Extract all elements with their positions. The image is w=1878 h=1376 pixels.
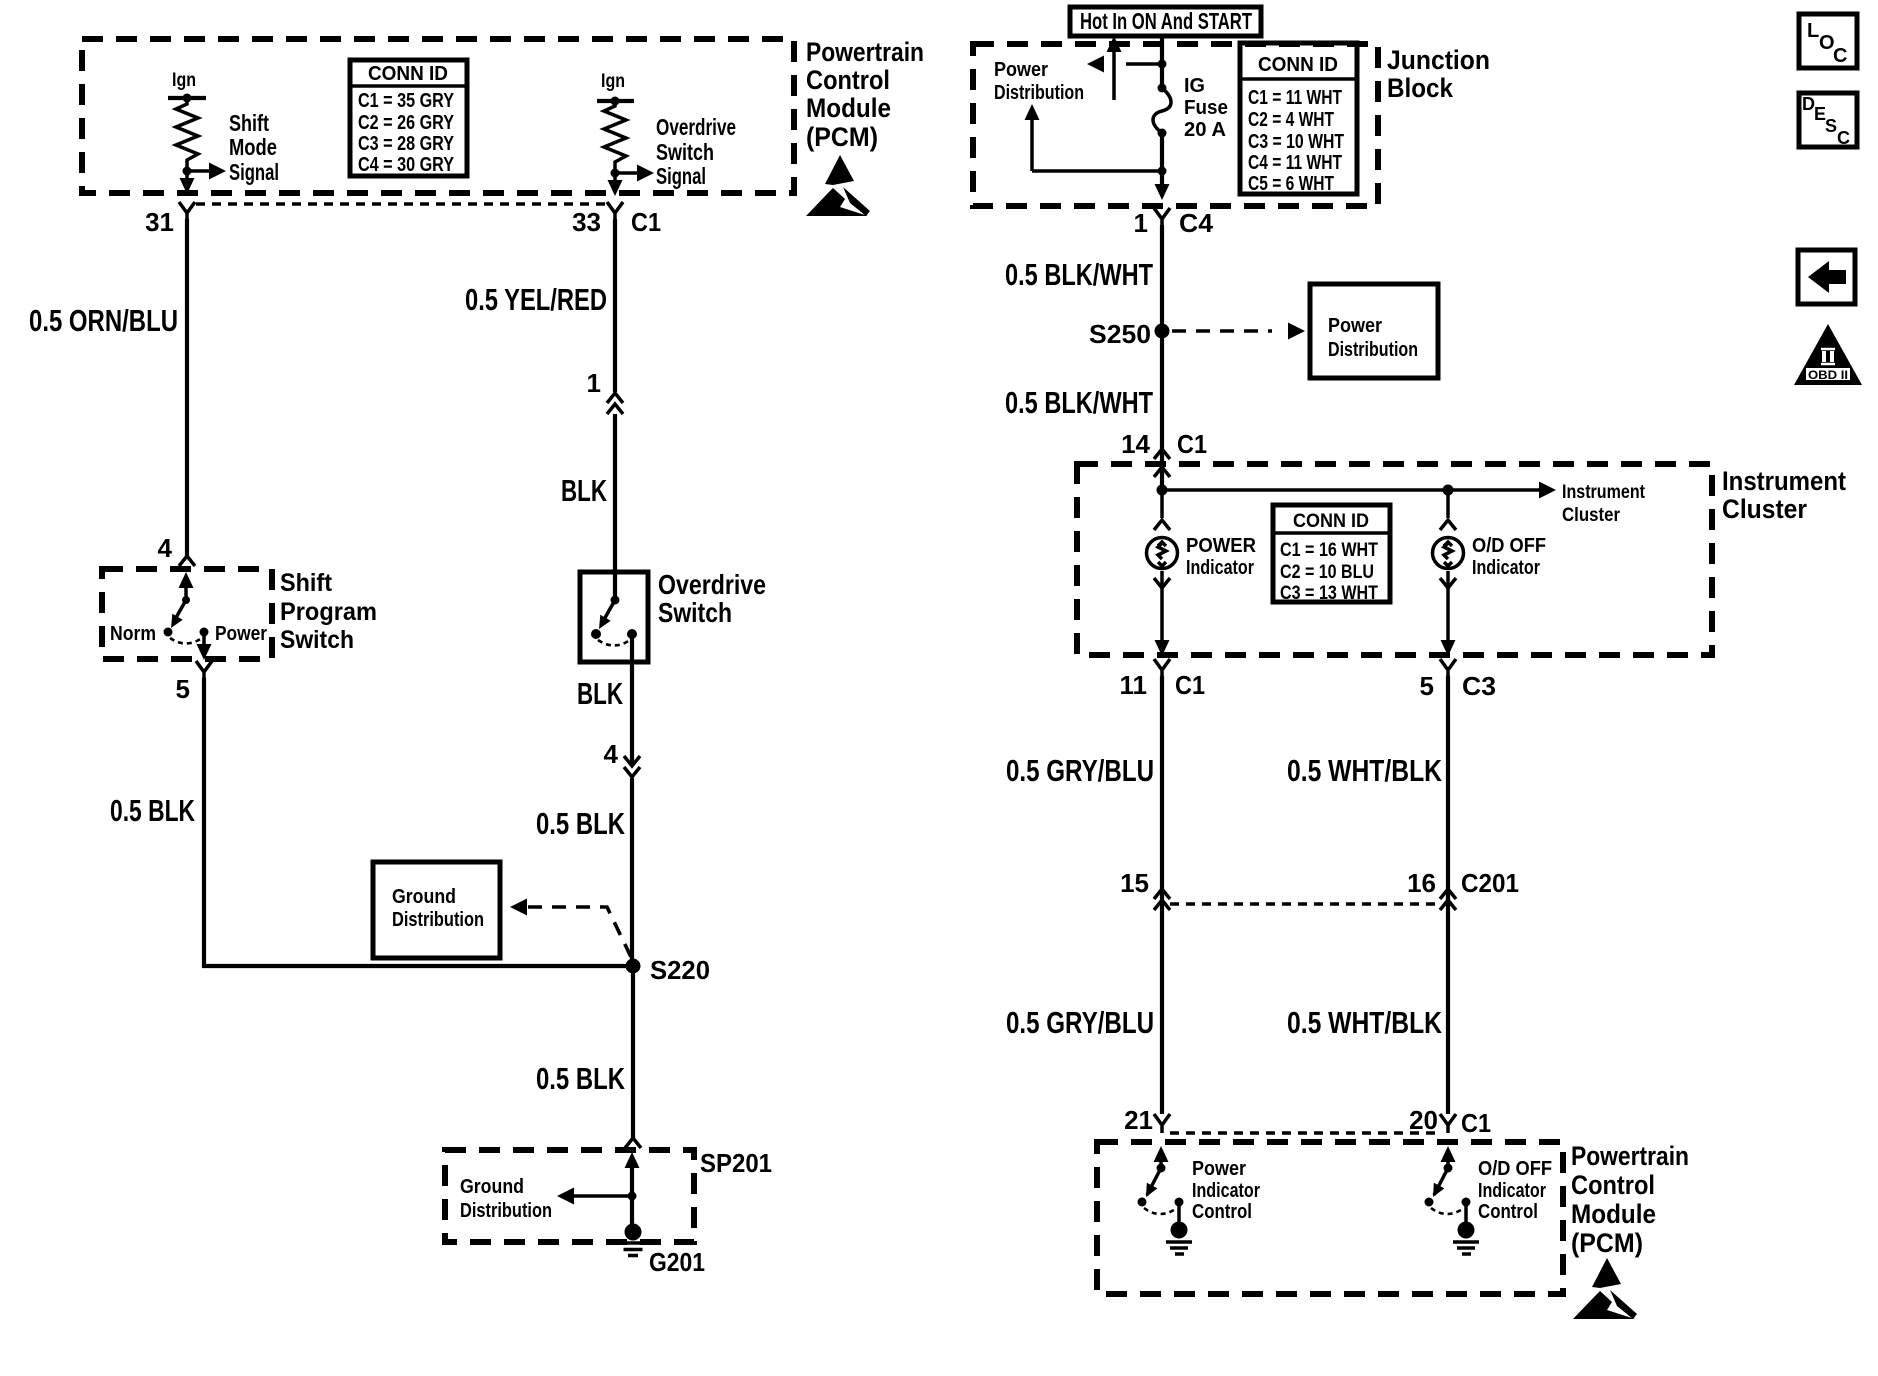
- svg-text:Distribution: Distribution: [392, 909, 484, 931]
- svg-text:C3 = 10 WHT: C3 = 10 WHT: [1248, 131, 1344, 153]
- wire 5 -> 20: [1446, 676, 1450, 1114]
- svg-text:C1: C1: [1177, 429, 1207, 459]
- wire S220 -> SP201: [631, 966, 635, 1138]
- svg-text:Overdrive: Overdrive: [658, 569, 766, 600]
- svg-text:IG: IG: [1184, 75, 1205, 97]
- svg-text:CONN ID: CONN ID: [1258, 54, 1338, 76]
- svg-text:C3 = 13 WHT: C3 = 13 WHT: [1280, 583, 1378, 604]
- svg-text:Indicator: Indicator: [1192, 1180, 1260, 1202]
- svg-text:(PCM): (PCM): [1571, 1228, 1643, 1258]
- pin 16 C201: [1407, 868, 1519, 910]
- svg-text:0.5 BLK/WHT: 0.5 BLK/WHT: [1005, 257, 1153, 292]
- pin 15: [1120, 868, 1170, 910]
- PCM module box (top left, dashed): [82, 39, 794, 193]
- svg-text:C4: C4: [1179, 208, 1214, 238]
- svg-text:SP201: SP201: [700, 1148, 772, 1178]
- pin 5 C3: [1420, 659, 1496, 701]
- svg-text:S: S: [1825, 116, 1837, 136]
- back arrow icon: [1798, 250, 1855, 304]
- svg-text:Power: Power: [215, 623, 267, 645]
- svg-text:31: 31: [145, 207, 174, 237]
- svg-text:Mode: Mode: [229, 134, 277, 160]
- svg-text:20 A: 20 A: [1184, 119, 1226, 141]
- svg-text:Control: Control: [1571, 1170, 1655, 1200]
- svg-text:0.5 BLK/WHT: 0.5 BLK/WHT: [1005, 385, 1153, 420]
- svg-text:Indicator: Indicator: [1478, 1180, 1546, 1202]
- wire out of overdrive switch: [630, 638, 634, 763]
- svg-text:Module: Module: [806, 93, 891, 123]
- svg-text:C1: C1: [1461, 1108, 1491, 1138]
- PCM connector boundary line: [1170, 1131, 1442, 1134]
- pin 5: [196, 661, 212, 680]
- svg-text:Shift: Shift: [229, 110, 269, 136]
- svg-text:Hot In ON And START: Hot In ON And START: [1080, 8, 1252, 34]
- svg-text:C2 = 4 WHT: C2 = 4 WHT: [1248, 109, 1334, 131]
- svg-text:CONN ID: CONN ID: [1293, 511, 1369, 532]
- Hot In ON And START box: [1070, 7, 1261, 36]
- wire exits junction block: [1155, 184, 1170, 200]
- CONN ID table (instrument cluster): [1273, 505, 1390, 604]
- svg-text:Power: Power: [994, 59, 1048, 81]
- svg-text:0.5 BLK: 0.5 BLK: [536, 1061, 625, 1096]
- branch left arrow: [1158, 60, 1167, 69]
- svg-text:C4 = 30 GRY: C4 = 30 GRY: [358, 154, 455, 176]
- svg-text:C1: C1: [1175, 670, 1205, 700]
- shift program switch symbol: [179, 572, 194, 588]
- pin 20 C1: [1409, 1105, 1491, 1138]
- O/D OFF indicator lamp: [1446, 490, 1450, 518]
- svg-text:BLK: BLK: [577, 676, 623, 711]
- svg-text:OBD II: OBD II: [1808, 368, 1848, 382]
- connector C201 boundary line: [1170, 902, 1440, 905]
- POWER indicator lamp: [1160, 490, 1164, 518]
- svg-text:Shift: Shift: [280, 569, 333, 597]
- svg-text:C2 = 26 GRY: C2 = 26 GRY: [358, 112, 455, 134]
- arrow to Hot In box: [1112, 48, 1116, 100]
- overdrive switch symbol: [611, 596, 620, 605]
- svg-text:Instrument: Instrument: [1562, 482, 1646, 503]
- Shift Mode Signal arrow: [187, 169, 212, 173]
- svg-text:C1 = 11 WHT: C1 = 11 WHT: [1248, 87, 1342, 109]
- svg-text:G201: G201: [649, 1247, 705, 1277]
- pin 11 C1: [1120, 659, 1206, 700]
- svg-text:Instrument: Instrument: [1722, 466, 1846, 496]
- svg-text:0.5 BLK: 0.5 BLK: [110, 793, 195, 828]
- svg-text:C: C: [1837, 128, 1850, 148]
- svg-text:C201: C201: [1461, 868, 1519, 898]
- svg-text:C1 = 16 WHT: C1 = 16 WHT: [1280, 540, 1378, 561]
- svg-text:Overdrive: Overdrive: [656, 114, 736, 140]
- ESD symbol (top PCM): [806, 155, 870, 216]
- svg-text:Ground: Ground: [460, 1176, 524, 1198]
- svg-text:Program: Program: [280, 598, 377, 626]
- DESC icon: [1799, 93, 1857, 148]
- Power Distribution box: [1310, 284, 1438, 378]
- connector boundary line (C1): [196, 202, 607, 205]
- svg-text:S250: S250: [1089, 319, 1151, 349]
- svg-text:21: 21: [1124, 1105, 1153, 1135]
- svg-text:Ign: Ign: [172, 70, 196, 91]
- svg-text:5: 5: [1420, 671, 1434, 701]
- svg-text:0.5 WHT/BLK: 0.5 WHT/BLK: [1287, 1005, 1442, 1040]
- svg-text:C5 = 6 WHT: C5 = 6 WHT: [1248, 173, 1334, 195]
- svg-text:Switch: Switch: [656, 139, 714, 165]
- svg-text:Indicator: Indicator: [1186, 557, 1254, 579]
- Junction Block box (dashed): [973, 44, 1378, 206]
- svg-text:Control: Control: [806, 65, 890, 95]
- svg-text:1: 1: [1134, 208, 1148, 238]
- svg-text:C1 = 35 GRY: C1 = 35 GRY: [358, 90, 455, 112]
- PCM module label: [806, 37, 924, 152]
- svg-text:Powertrain: Powertrain: [1571, 1141, 1689, 1171]
- svg-text:33: 33: [572, 207, 601, 237]
- svg-text:4: 4: [158, 533, 173, 563]
- OBD II icon: [1794, 324, 1862, 385]
- svg-text:0.5 GRY/BLU: 0.5 GRY/BLU: [1006, 753, 1154, 788]
- svg-text:Ground: Ground: [392, 886, 456, 908]
- svg-text:Norm: Norm: [110, 623, 156, 645]
- svg-text:(PCM): (PCM): [806, 122, 878, 152]
- Shift Program Switch box (dashed): [102, 569, 272, 659]
- svg-text:Power: Power: [1192, 1158, 1246, 1180]
- splice S250: [1155, 324, 1170, 339]
- svg-text:14: 14: [1121, 429, 1150, 459]
- svg-text:C3 = 28 GRY: C3 = 28 GRY: [358, 133, 455, 155]
- svg-text:C: C: [1833, 45, 1847, 67]
- svg-text:Block: Block: [1387, 73, 1454, 103]
- pin 31: [179, 202, 195, 221]
- node S220: [626, 959, 641, 974]
- svg-text:0.5 YEL/RED: 0.5 YEL/RED: [465, 282, 607, 317]
- svg-text:POWER: POWER: [1186, 535, 1257, 557]
- svg-text:0.5 ORN/BLU: 0.5 ORN/BLU: [29, 303, 178, 338]
- svg-text:L: L: [1807, 20, 1819, 42]
- svg-text:C1: C1: [631, 207, 661, 237]
- svg-text:BLK: BLK: [561, 473, 607, 508]
- IG fuse 20 A: [1158, 84, 1167, 93]
- svg-text:O/D OFF: O/D OFF: [1478, 1158, 1552, 1180]
- O/D OFF indicator control driver: [1441, 1146, 1456, 1162]
- svg-text:Fuse: Fuse: [1184, 97, 1228, 119]
- svg-text:C3: C3: [1462, 671, 1496, 701]
- pin 21: [1124, 1105, 1170, 1135]
- svg-text:Distribution: Distribution: [460, 1200, 552, 1222]
- svg-text:Powertrain: Powertrain: [806, 37, 924, 67]
- svg-text:0.5 BLK: 0.5 BLK: [536, 806, 625, 841]
- pin 1 / C4: [1154, 208, 1170, 227]
- svg-text:Control: Control: [1192, 1201, 1252, 1223]
- svg-text:Cluster: Cluster: [1722, 494, 1807, 524]
- svg-text:4: 4: [604, 739, 619, 769]
- svg-text:Cluster: Cluster: [1562, 505, 1621, 526]
- svg-text:C2 = 10 BLU: C2 = 10 BLU: [1280, 562, 1374, 583]
- LOC icon: [1799, 14, 1857, 68]
- CONN ID table (PCM): [350, 60, 467, 176]
- svg-text:Distribution: Distribution: [994, 82, 1084, 104]
- Overdrive Switch box: [580, 572, 648, 662]
- svg-text:20: 20: [1409, 1105, 1438, 1135]
- junction node (feed tap, right): [1443, 485, 1454, 496]
- junction node (feed tap, left): [1157, 485, 1168, 496]
- wire into cluster: [1160, 448, 1164, 490]
- wire 5 -> S220: [204, 678, 633, 966]
- svg-text:Signal: Signal: [656, 163, 706, 189]
- svg-text:Switch: Switch: [280, 626, 354, 654]
- branch power distribution arrow (up): [1160, 133, 1164, 186]
- dashed reference arrow to S220: [510, 899, 527, 916]
- svg-text:S220: S220: [650, 955, 710, 985]
- CONN ID table (junction block): [1240, 43, 1357, 195]
- Overdrive Switch Signal arrow: [615, 171, 640, 175]
- svg-text:O/D OFF: O/D OFF: [1472, 535, 1546, 557]
- splice SP201 box (dashed): [625, 1138, 641, 1148]
- svg-text:0.5 WHT/BLK: 0.5 WHT/BLK: [1287, 753, 1442, 788]
- resistor (overdrive pull-up): [604, 101, 626, 174]
- svg-text:Ign: Ign: [601, 71, 625, 92]
- dashed ref arrow to Power Distribution: [1172, 329, 1272, 333]
- wire 33 -> overdrive switch: [613, 219, 617, 392]
- svg-text:Signal: Signal: [229, 159, 279, 185]
- svg-text:Power: Power: [1328, 315, 1382, 337]
- svg-text:11: 11: [1120, 670, 1148, 700]
- power indicator control driver: [1154, 1146, 1169, 1162]
- svg-text:Control: Control: [1478, 1201, 1538, 1223]
- internal feed wire to instrument cluster ref: [1162, 482, 1646, 527]
- Ground Distribution box (S220 ref): [373, 862, 500, 958]
- svg-text:Module: Module: [1571, 1199, 1656, 1229]
- svg-text:C4 = 11 WHT: C4 = 11 WHT: [1248, 152, 1342, 174]
- svg-text:Indicator: Indicator: [1472, 557, 1540, 579]
- svg-text:Switch: Switch: [658, 597, 732, 628]
- pin 33 / C1: [607, 202, 623, 221]
- svg-text:5: 5: [176, 674, 190, 704]
- svg-text:Junction: Junction: [1387, 45, 1490, 75]
- ESD symbol (bottom PCM): [1573, 1258, 1637, 1319]
- wire 1 -> S250: [1160, 225, 1164, 448]
- svg-text:16: 16: [1407, 868, 1436, 898]
- svg-text:15: 15: [1120, 868, 1149, 898]
- resistor (shift mode pull-up): [176, 98, 198, 172]
- svg-text:1: 1: [587, 368, 601, 398]
- wire 11 -> 21: [1160, 676, 1164, 1114]
- ground G201: [619, 1224, 647, 1256]
- wire 31 -> shift program switch: [185, 219, 189, 556]
- svg-text:Distribution: Distribution: [1328, 339, 1418, 361]
- wire from Hot In into block: [1160, 38, 1164, 88]
- svg-text:CONN ID: CONN ID: [368, 63, 448, 85]
- svg-text:0.5 GRY/BLU: 0.5 GRY/BLU: [1006, 1005, 1154, 1040]
